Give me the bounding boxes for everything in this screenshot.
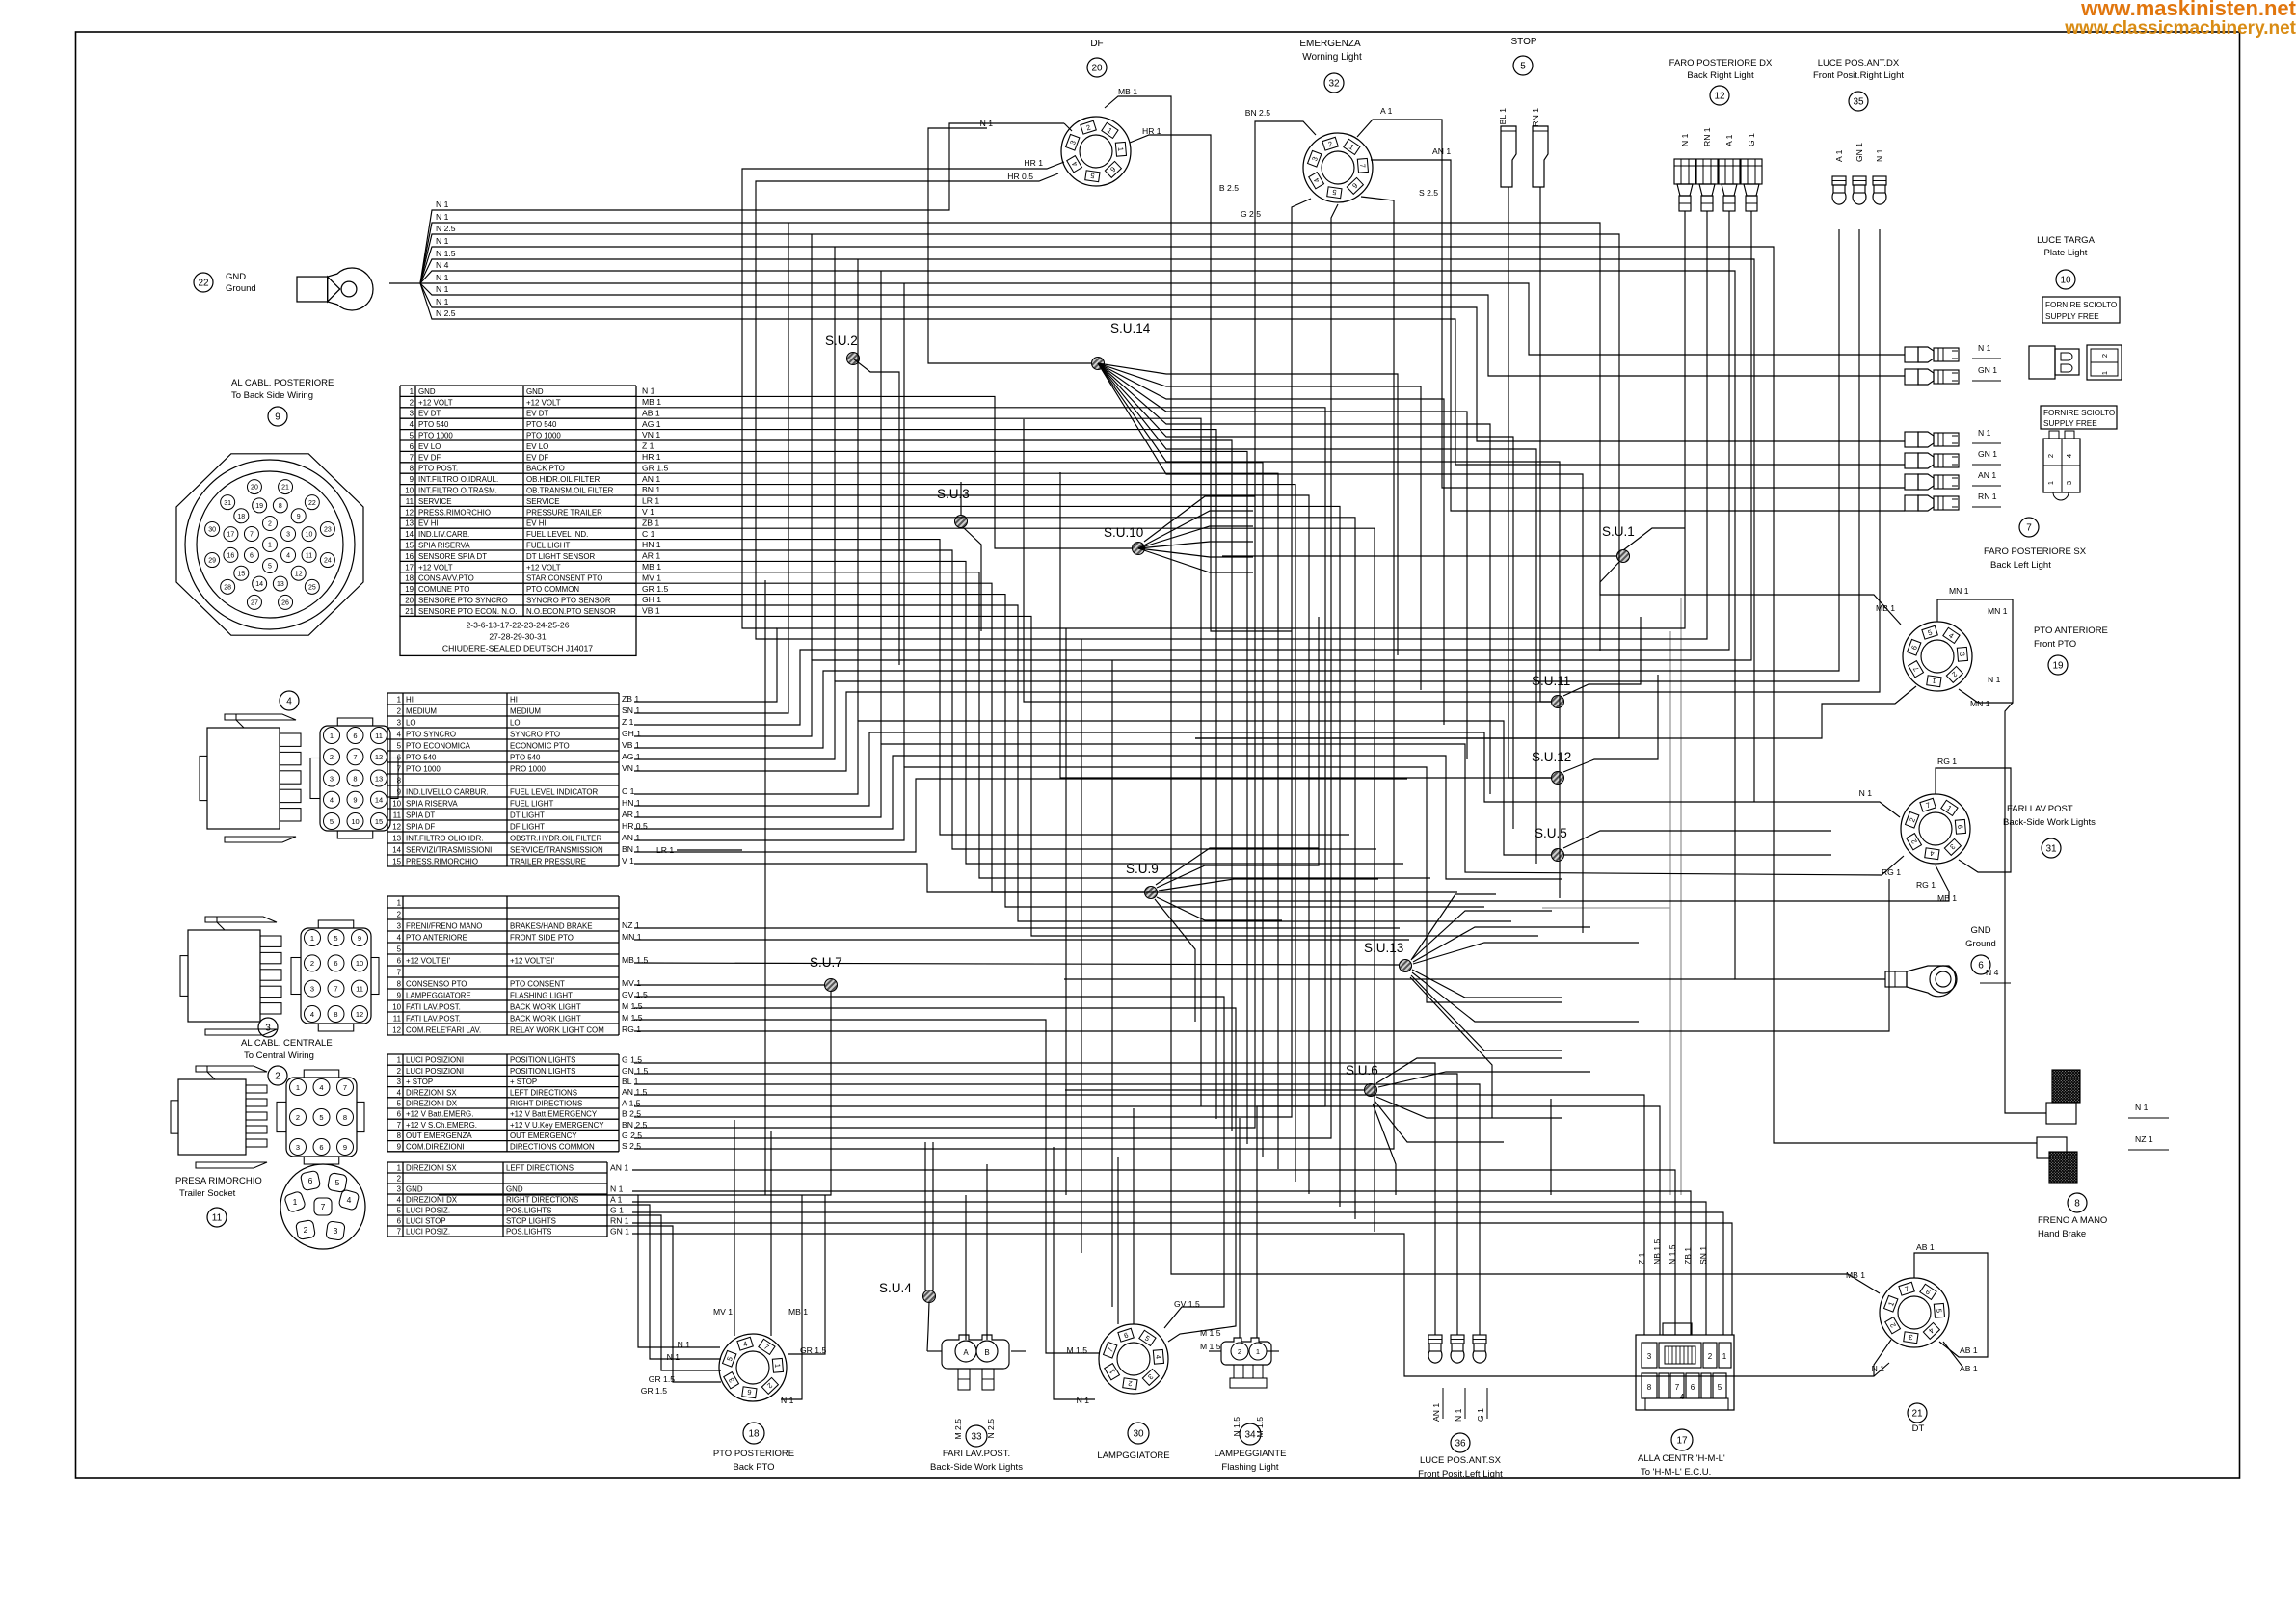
svg-text:4: 4	[347, 1195, 352, 1205]
svg-text:LAMPEGGIANTE: LAMPEGGIANTE	[1215, 1449, 1287, 1459]
svg-text:G 1: G 1	[610, 1205, 624, 1214]
svg-text:17: 17	[1676, 1436, 1688, 1447]
svg-text:7: 7	[397, 968, 401, 976]
svg-text:PTO 540: PTO 540	[406, 753, 437, 761]
svg-text:7: 7	[353, 753, 357, 761]
svg-text:SPIA DF: SPIA DF	[406, 822, 435, 831]
svg-text:LR 1: LR 1	[642, 496, 659, 506]
svg-text:15: 15	[375, 817, 383, 826]
svg-text:C 1: C 1	[642, 529, 655, 539]
svg-text:5: 5	[335, 1178, 340, 1187]
svg-text:BN 2.5: BN 2.5	[1245, 108, 1270, 118]
svg-text:GR 1.5: GR 1.5	[649, 1374, 675, 1384]
svg-text:17: 17	[405, 563, 414, 572]
svg-text:9: 9	[343, 1143, 347, 1152]
svg-text:9: 9	[410, 475, 414, 484]
svg-text:N 1.5: N 1.5	[436, 249, 456, 258]
svg-text:MN 1: MN 1	[1988, 606, 2008, 616]
svg-text:N 1: N 1	[1859, 788, 1873, 798]
svg-text:LUCI POSIZIONI: LUCI POSIZIONI	[406, 1056, 464, 1065]
svg-text:INT.FILTRO O.IDRAUL.: INT.FILTRO O.IDRAUL.	[418, 475, 498, 484]
svg-text:To Central Wiring: To Central Wiring	[244, 1051, 314, 1061]
svg-text:M 1.5: M 1.5	[622, 1001, 643, 1011]
svg-text:PTO SYNCRO: PTO SYNCRO	[406, 730, 456, 738]
svg-text:POSITION LIGHTS: POSITION LIGHTS	[510, 1056, 575, 1065]
svg-text:MV 1: MV 1	[713, 1307, 733, 1317]
svg-text:36: 36	[1455, 1439, 1466, 1450]
svg-text:33: 33	[971, 1432, 982, 1443]
svg-text:5: 5	[397, 945, 402, 953]
svg-text:26: 26	[281, 599, 289, 606]
svg-text:Trailer Socket: Trailer Socket	[179, 1188, 236, 1199]
svg-text:SYNCRO PTO SENSOR: SYNCRO PTO SENSOR	[526, 596, 611, 604]
svg-text:31: 31	[2045, 844, 2057, 855]
svg-text:13: 13	[277, 581, 284, 588]
svg-text:19: 19	[405, 585, 414, 594]
svg-text:1: 1	[330, 732, 334, 740]
svg-text:N 1: N 1	[1454, 1408, 1463, 1422]
svg-text:AR 1: AR 1	[642, 551, 660, 561]
svg-text:AL CABL. POSTERIORE: AL CABL. POSTERIORE	[231, 378, 334, 388]
svg-text:1: 1	[1722, 1352, 1727, 1361]
svg-text:5: 5	[397, 741, 402, 750]
svg-text:2: 2	[397, 910, 401, 918]
svg-text:4: 4	[410, 420, 414, 429]
svg-text:18: 18	[405, 574, 414, 583]
svg-text:SERVICE: SERVICE	[526, 497, 560, 506]
svg-text:PTO POSTERIORE: PTO POSTERIORE	[713, 1449, 794, 1459]
svg-text:AB 1: AB 1	[1960, 1345, 1978, 1355]
svg-text:PTO COMMON: PTO COMMON	[526, 585, 579, 594]
svg-text:Ground: Ground	[226, 283, 256, 294]
svg-text:2-3-6-13-17-22-23-24-25-26: 2-3-6-13-17-22-23-24-25-26	[466, 620, 569, 629]
svg-text:EV DT: EV DT	[526, 410, 548, 418]
svg-text:CHIUDERE-SEALED DEUTSCH J14017: CHIUDERE-SEALED DEUTSCH J14017	[442, 643, 593, 652]
svg-text:G 1: G 1	[1747, 133, 1756, 146]
svg-text:N 1: N 1	[436, 284, 449, 294]
svg-text:5: 5	[397, 1207, 402, 1215]
svg-text:COM.RELE'FARI LAV.: COM.RELE'FARI LAV.	[406, 1025, 481, 1034]
svg-text:3: 3	[410, 410, 414, 418]
svg-text:HR 1: HR 1	[642, 452, 661, 462]
svg-text:EMERGENZA: EMERGENZA	[1299, 39, 1361, 49]
svg-text:+12 VOLT: +12 VOLT	[526, 398, 561, 407]
svg-text:10: 10	[2060, 276, 2071, 286]
svg-text:IND.LIV.CARB.: IND.LIV.CARB.	[418, 530, 469, 539]
svg-text:DF LIGHT: DF LIGHT	[510, 822, 545, 831]
svg-text:12: 12	[375, 753, 383, 761]
svg-text:5: 5	[330, 817, 334, 826]
svg-text:N 2.5: N 2.5	[436, 224, 456, 233]
svg-text:S.U.3: S.U.3	[937, 487, 970, 501]
svg-text:SUPPLY FREE: SUPPLY FREE	[2045, 312, 2099, 321]
svg-text:GN 1: GN 1	[1978, 449, 1997, 459]
svg-text:FARI LAV.POST.: FARI LAV.POST.	[2007, 804, 2074, 814]
svg-text:13: 13	[392, 834, 401, 842]
svg-text:LR 1: LR 1	[656, 845, 674, 855]
svg-text:N 1: N 1	[642, 386, 655, 396]
svg-text:4: 4	[310, 1010, 314, 1019]
svg-text:S 2.5: S 2.5	[1419, 188, 1438, 198]
svg-text:Worning Light: Worning Light	[1302, 52, 1362, 63]
svg-text:24: 24	[324, 558, 332, 565]
svg-text:28: 28	[224, 584, 231, 591]
svg-text:N 1: N 1	[436, 200, 449, 209]
svg-text:+12 VOLT'EI': +12 VOLT'EI'	[406, 956, 451, 965]
svg-text:11: 11	[393, 811, 401, 819]
svg-text:GND: GND	[526, 387, 544, 396]
svg-text:3: 3	[397, 718, 402, 727]
svg-text:LO: LO	[510, 718, 521, 727]
svg-text:Back-Side Work Lights: Back-Side Work Lights	[2003, 817, 2096, 828]
svg-text:AB 1: AB 1	[1916, 1242, 1935, 1252]
svg-text:6: 6	[397, 1110, 402, 1119]
svg-text:9: 9	[297, 514, 301, 520]
svg-text:2: 2	[397, 706, 401, 715]
svg-text:FARO POSTERIORE DX: FARO POSTERIORE DX	[1669, 58, 1773, 68]
svg-text:PRESS.RIMORCHIO: PRESS.RIMORCHIO	[418, 508, 491, 517]
svg-text:BL 1: BL 1	[1498, 108, 1508, 125]
svg-text:MV 1: MV 1	[642, 572, 661, 582]
svg-text:8: 8	[397, 776, 402, 785]
svg-text:RELAY WORK LIGHT COM: RELAY WORK LIGHT COM	[510, 1025, 604, 1034]
svg-text:B: B	[984, 1348, 989, 1357]
svg-text:AG 1: AG 1	[642, 419, 661, 429]
svg-text:13: 13	[375, 774, 383, 783]
svg-text:N 1: N 1	[436, 212, 449, 222]
svg-text:7: 7	[397, 1228, 401, 1237]
svg-text:3: 3	[310, 984, 314, 993]
svg-text:Front PTO: Front PTO	[2034, 639, 2076, 650]
svg-text:FLASHING LIGHT: FLASHING LIGHT	[510, 991, 573, 999]
svg-text:GND: GND	[1970, 925, 1990, 936]
svg-text:Back Left Light: Back Left Light	[1990, 560, 2051, 571]
svg-text:S.U.6: S.U.6	[1346, 1063, 1378, 1078]
svg-text:9: 9	[353, 796, 357, 805]
svg-text:6: 6	[397, 1217, 402, 1226]
svg-text:20: 20	[251, 485, 258, 492]
svg-text:22: 22	[198, 279, 209, 289]
svg-text:15: 15	[237, 571, 245, 577]
svg-text:5: 5	[1935, 1308, 1943, 1313]
svg-text:POS.LIGHTS: POS.LIGHTS	[506, 1228, 551, 1237]
svg-text:CONSENSO PTO: CONSENSO PTO	[406, 979, 467, 988]
svg-text:1: 1	[397, 898, 401, 907]
svg-text:4: 4	[330, 796, 334, 805]
svg-text:SERVICE: SERVICE	[418, 497, 452, 506]
svg-text:6: 6	[319, 1143, 323, 1152]
svg-text:6: 6	[397, 753, 402, 761]
svg-text:CONS.AVV.PTO: CONS.AVV.PTO	[418, 574, 474, 583]
svg-text:INT.FILTRO OLIO IDR.: INT.FILTRO OLIO IDR.	[406, 834, 484, 842]
svg-text:PTO 540: PTO 540	[418, 420, 449, 429]
svg-text:12: 12	[392, 1025, 401, 1034]
svg-text:MB 1: MB 1	[788, 1307, 808, 1317]
svg-text:FUEL LIGHT: FUEL LIGHT	[526, 541, 570, 549]
svg-text:4: 4	[397, 933, 402, 942]
svg-text:LAMPEGGIATORE: LAMPEGGIATORE	[406, 991, 471, 999]
svg-text:S.U.10: S.U.10	[1104, 525, 1143, 540]
svg-text:DIREZIONI SX: DIREZIONI SX	[406, 1088, 457, 1097]
svg-text:2: 2	[275, 1072, 280, 1082]
svg-text:1: 1	[296, 1083, 300, 1092]
svg-text:POS.LIGHTS: POS.LIGHTS	[506, 1207, 551, 1215]
svg-text:MEDIUM: MEDIUM	[510, 706, 541, 715]
svg-text:GND: GND	[506, 1185, 523, 1194]
svg-text:GH 1: GH 1	[642, 595, 661, 604]
svg-text:10: 10	[351, 817, 359, 826]
svg-text:+12 V Batt.EMERGENCY: +12 V Batt.EMERGENCY	[510, 1110, 598, 1119]
svg-text:SPIA RISERVA: SPIA RISERVA	[406, 799, 458, 808]
svg-text:3: 3	[2065, 481, 2073, 485]
svg-text:GR 1.5: GR 1.5	[642, 584, 668, 594]
svg-text:5: 5	[397, 1100, 402, 1108]
svg-text:8: 8	[334, 1010, 337, 1019]
svg-text:SPIA DT: SPIA DT	[406, 811, 435, 819]
svg-text:35: 35	[1853, 97, 1864, 108]
svg-text:LO: LO	[406, 718, 416, 727]
svg-text:2: 2	[304, 1225, 308, 1235]
svg-text:FORNIRE SCIOLTO: FORNIRE SCIOLTO	[2045, 301, 2117, 309]
svg-text:RG 1: RG 1	[1916, 880, 1936, 890]
svg-text:3: 3	[286, 532, 290, 539]
svg-text:6: 6	[1978, 961, 1984, 971]
svg-text:19: 19	[255, 503, 263, 510]
svg-text:DT LIGHT: DT LIGHT	[510, 811, 545, 819]
svg-text:FARI LAV.POST.: FARI LAV.POST.	[943, 1449, 1010, 1459]
svg-text:10: 10	[405, 486, 414, 494]
svg-text:STOP LIGHTS: STOP LIGHTS	[506, 1217, 556, 1226]
svg-text:BACK WORK LIGHT: BACK WORK LIGHT	[510, 1002, 581, 1011]
svg-text:10: 10	[392, 799, 401, 808]
svg-text:12: 12	[356, 1010, 363, 1019]
svg-text:PTO CONSENT: PTO CONSENT	[510, 979, 565, 988]
svg-text:3: 3	[1647, 1352, 1652, 1361]
svg-text:N 1: N 1	[1680, 133, 1690, 146]
svg-text:21: 21	[1911, 1409, 1923, 1420]
svg-text:MB 1: MB 1	[642, 562, 661, 572]
svg-text:GR 1.5: GR 1.5	[641, 1386, 667, 1396]
svg-text:S.U.7: S.U.7	[810, 955, 842, 970]
svg-text:4: 4	[397, 730, 402, 738]
svg-text:2: 2	[410, 398, 414, 407]
svg-text:OB.TRANSM.OIL FILTER: OB.TRANSM.OIL FILTER	[526, 486, 614, 494]
svg-text:FRENI/FRENO MANO: FRENI/FRENO MANO	[406, 921, 482, 930]
svg-text:14: 14	[405, 530, 414, 539]
svg-text:MB 1: MB 1	[1118, 87, 1137, 96]
svg-text:M 1.5: M 1.5	[1255, 1417, 1265, 1438]
svg-text:GND: GND	[406, 1185, 423, 1194]
svg-text:A 1: A 1	[1724, 134, 1734, 146]
svg-text:4: 4	[286, 553, 290, 560]
svg-text:27: 27	[251, 599, 258, 606]
svg-text:N 1: N 1	[1077, 1396, 1090, 1405]
svg-text:5: 5	[1520, 62, 1526, 72]
svg-text:FRENO A MANO: FRENO A MANO	[2038, 1215, 2107, 1226]
svg-text:1: 1	[397, 1056, 401, 1065]
svg-text:11: 11	[306, 552, 312, 559]
svg-text:PTO 1000: PTO 1000	[526, 431, 561, 439]
svg-text:11: 11	[406, 497, 414, 506]
svg-text:N 1: N 1	[436, 236, 449, 246]
svg-text:PTO 1000: PTO 1000	[406, 764, 441, 773]
svg-text:To 'H-M-L' E.C.U.: To 'H-M-L' E.C.U.	[1641, 1467, 1711, 1477]
svg-text:22: 22	[308, 500, 316, 507]
svg-text:FUEL LIGHT: FUEL LIGHT	[510, 799, 553, 808]
svg-text:DIREZIONI DX: DIREZIONI DX	[406, 1196, 458, 1205]
svg-text:AN 1: AN 1	[610, 1162, 628, 1172]
svg-text:S.U.2: S.U.2	[825, 333, 858, 348]
svg-text:1: 1	[397, 695, 401, 704]
svg-text:+12 VOLT: +12 VOLT	[418, 398, 453, 407]
svg-text:LUCI POSIZ.: LUCI POSIZ.	[406, 1228, 450, 1237]
svg-text:N 2.5: N 2.5	[436, 308, 456, 318]
svg-text:EV LO: EV LO	[418, 442, 441, 451]
svg-text:5: 5	[268, 564, 272, 571]
svg-text:13: 13	[405, 519, 414, 528]
svg-text:STOP: STOP	[1510, 37, 1536, 47]
svg-text:SYNCRO PTO: SYNCRO PTO	[510, 730, 560, 738]
svg-text:EV DF: EV DF	[418, 453, 441, 462]
svg-text:+12 VOLT'EI': +12 VOLT'EI'	[510, 956, 555, 965]
svg-text:PTO 540: PTO 540	[510, 753, 541, 761]
svg-text:32: 32	[1328, 79, 1340, 90]
svg-text:+ STOP: + STOP	[406, 1078, 433, 1086]
svg-text:4: 4	[397, 1196, 402, 1205]
svg-text:10: 10	[306, 532, 313, 539]
svg-text:31: 31	[224, 500, 231, 507]
svg-text:EV DT: EV DT	[418, 410, 441, 418]
svg-text:OBSTR.HYDR.OIL FILTER: OBSTR.HYDR.OIL FILTER	[510, 834, 601, 842]
svg-text:9: 9	[275, 412, 280, 423]
svg-text:2: 2	[268, 521, 272, 528]
svg-text:6: 6	[1691, 1383, 1695, 1392]
svg-text:DT: DT	[1912, 1423, 1925, 1434]
svg-text:GN 1: GN 1	[610, 1226, 629, 1236]
svg-text:N 1: N 1	[1978, 343, 1991, 353]
svg-text:4: 4	[1680, 1393, 1685, 1401]
svg-text:S.U.13: S.U.13	[1364, 941, 1403, 955]
svg-text:4: 4	[286, 697, 292, 707]
svg-text:PTO ANTERIORE: PTO ANTERIORE	[2034, 625, 2108, 636]
svg-text:8: 8	[410, 465, 414, 473]
svg-text:SPIA RISERVA: SPIA RISERVA	[418, 541, 470, 549]
svg-text:5: 5	[410, 431, 414, 439]
svg-text:14: 14	[392, 845, 401, 854]
svg-text:1: 1	[1116, 146, 1125, 151]
svg-text:S 2.5: S 2.5	[622, 1141, 641, 1151]
svg-text:A 1: A 1	[1834, 149, 1844, 162]
svg-text:Front Posit.Right Light: Front Posit.Right Light	[1813, 70, 1904, 81]
svg-text:RN 1: RN 1	[1702, 127, 1712, 146]
svg-text:16: 16	[405, 552, 414, 561]
svg-text:FRONT SIDE PTO: FRONT SIDE PTO	[510, 933, 574, 942]
svg-text:PRESSURE TRAILER: PRESSURE TRAILER	[526, 508, 602, 517]
svg-text:1: 1	[773, 1363, 782, 1368]
svg-text:PRESS.RIMORCHIO: PRESS.RIMORCHIO	[406, 857, 478, 865]
svg-text:Back-Side Work Lights: Back-Side Work Lights	[930, 1462, 1023, 1473]
svg-text:HR 1: HR 1	[1024, 158, 1043, 168]
svg-text:6: 6	[334, 959, 337, 968]
svg-text:5: 5	[1718, 1383, 1722, 1392]
svg-text:1: 1	[2100, 371, 2109, 375]
svg-text:MN 1: MN 1	[1970, 699, 1990, 708]
svg-text:7: 7	[397, 1121, 401, 1130]
svg-text:21: 21	[405, 607, 414, 616]
svg-text:+12 V U.Key EMERGENCY: +12 V U.Key EMERGENCY	[510, 1121, 604, 1130]
svg-text:S.U.14: S.U.14	[1110, 321, 1151, 335]
svg-text:Back PTO: Back PTO	[733, 1462, 774, 1473]
svg-text:N 1: N 1	[2135, 1103, 2149, 1112]
svg-text:MV 1: MV 1	[622, 978, 641, 988]
svg-text:IND.LIVELLO CARBUR.: IND.LIVELLO CARBUR.	[406, 787, 489, 796]
svg-text:EV HI: EV HI	[418, 519, 439, 528]
svg-text:www.maskinisten.net: www.maskinisten.net	[2080, 0, 2296, 20]
svg-text:LUCE POS.ANT.SX: LUCE POS.ANT.SX	[1420, 1455, 1502, 1466]
svg-text:RN 1: RN 1	[1531, 108, 1540, 127]
svg-text:N 1: N 1	[436, 273, 449, 282]
svg-text:15: 15	[392, 857, 401, 865]
svg-text:11: 11	[393, 1014, 401, 1023]
svg-text:G 2.5: G 2.5	[1241, 209, 1261, 219]
svg-text:6: 6	[353, 732, 357, 740]
svg-text:8: 8	[279, 503, 282, 510]
svg-text:POSITION LIGHTS: POSITION LIGHTS	[510, 1067, 575, 1076]
svg-text:DT LIGHT SENSOR: DT LIGHT SENSOR	[526, 552, 595, 561]
svg-text:LUCI POSIZIONI: LUCI POSIZIONI	[406, 1067, 464, 1076]
svg-text:SENSORE SPIA DT: SENSORE SPIA DT	[418, 552, 487, 561]
svg-text:1: 1	[293, 1197, 298, 1207]
svg-text:4: 4	[319, 1083, 323, 1092]
svg-text:2: 2	[1238, 1347, 1241, 1356]
svg-text:PRO 1000: PRO 1000	[510, 764, 546, 773]
svg-text:6: 6	[397, 956, 402, 965]
svg-text:MEDIUM: MEDIUM	[406, 706, 437, 715]
svg-text:11: 11	[375, 732, 383, 740]
svg-text:4: 4	[2065, 454, 2073, 458]
svg-text:OB.HIDR.OIL FILTER: OB.HIDR.OIL FILTER	[526, 475, 601, 484]
svg-text:LUCE TARGA: LUCE TARGA	[2037, 235, 2095, 246]
svg-text:MN 1: MN 1	[1949, 586, 1969, 596]
svg-text:M 1.5: M 1.5	[1200, 1342, 1221, 1351]
svg-text:HI: HI	[510, 695, 518, 704]
svg-text:ECONOMIC PTO: ECONOMIC PTO	[510, 741, 570, 750]
svg-text:Plate Light: Plate Light	[2044, 248, 2088, 258]
svg-text:RN 1: RN 1	[610, 1215, 629, 1225]
svg-text:30: 30	[208, 527, 216, 534]
svg-text:20: 20	[405, 596, 414, 604]
svg-text:A 1: A 1	[610, 1194, 623, 1204]
svg-text:+ STOP: + STOP	[510, 1078, 537, 1086]
svg-text:5: 5	[334, 934, 337, 943]
svg-text:+12 VOLT: +12 VOLT	[526, 563, 561, 572]
svg-text:2: 2	[2046, 454, 2055, 458]
svg-text:7: 7	[334, 984, 337, 993]
svg-text:7: 7	[250, 532, 254, 539]
svg-text:8: 8	[343, 1113, 347, 1122]
svg-text:S.U.12: S.U.12	[1532, 750, 1571, 764]
svg-text:V 1: V 1	[642, 507, 654, 517]
svg-text:2: 2	[2100, 354, 2109, 358]
svg-text:HR 0.5: HR 0.5	[1007, 172, 1033, 181]
svg-text:FUEL LEVEL INDICATOR: FUEL LEVEL INDICATOR	[510, 787, 599, 796]
svg-text:ALLA CENTR.'H-M-L': ALLA CENTR.'H-M-L'	[1638, 1453, 1725, 1464]
svg-text:DIREZIONI SX: DIREZIONI SX	[406, 1164, 457, 1173]
svg-text:21: 21	[281, 485, 289, 492]
svg-text:2: 2	[330, 753, 334, 761]
svg-text:STAR CONSENT PTO: STAR CONSENT PTO	[526, 574, 602, 583]
svg-text:34: 34	[1244, 1430, 1256, 1441]
